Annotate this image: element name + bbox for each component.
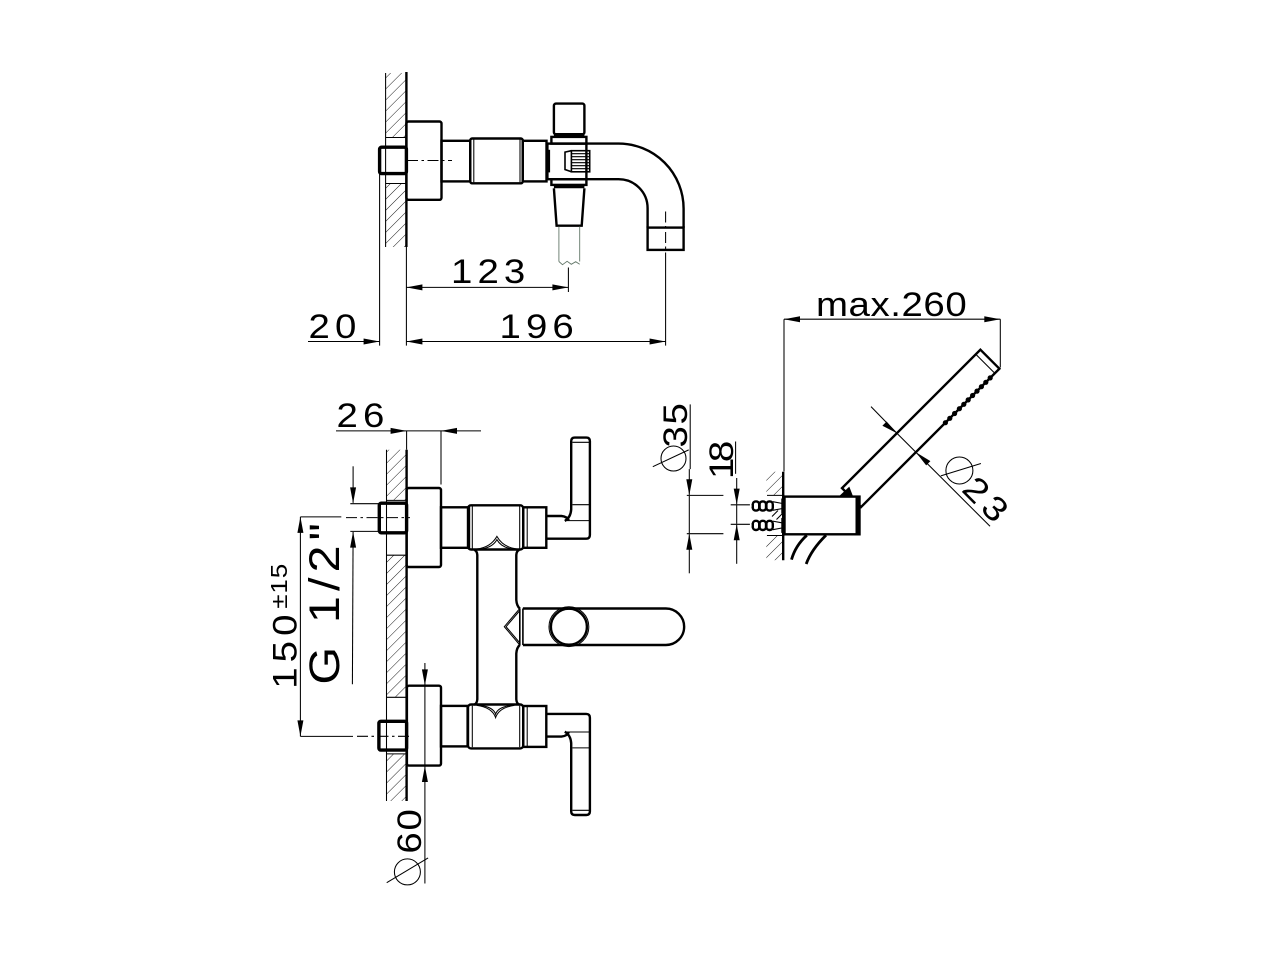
dim dia35 ticks xyxy=(687,494,724,496)
svg-text:196: 196 xyxy=(500,307,579,345)
bracket holder ring edge xyxy=(856,497,859,535)
cylinder C xyxy=(523,141,547,182)
diverter knob top xyxy=(554,104,585,135)
dim dia60 leader through flange xyxy=(424,663,426,685)
dim 18 leader line xyxy=(736,478,738,504)
lower inlet centerline xyxy=(300,735,353,737)
dowel 1 xyxy=(752,499,785,514)
dim 20 arrow xyxy=(364,339,380,345)
cylinder B body xyxy=(470,139,523,184)
dia23 symbol xyxy=(946,457,973,484)
lower transition curves xyxy=(477,705,515,717)
tee bottom thick band xyxy=(554,185,585,188)
wall hatch band segments xyxy=(766,472,783,496)
spout outer curve xyxy=(586,144,683,228)
dim 123 arrows xyxy=(406,284,422,290)
left extension line xyxy=(783,319,785,471)
wall face line xyxy=(405,72,407,247)
dim dia23 line upper segment xyxy=(871,407,897,434)
tee valve body xyxy=(547,144,586,180)
wall face extension up to dim 26 xyxy=(406,431,408,450)
lower valve chamfer lines xyxy=(471,706,473,748)
aerator tube thin outline xyxy=(559,227,580,262)
tub spout chevron joint xyxy=(504,609,520,646)
lower inlet nut xyxy=(379,721,407,750)
dim 150 line xyxy=(299,517,301,737)
wall face extension line to dimension xyxy=(405,247,407,346)
dim 20 tail line xyxy=(308,341,380,343)
svg-text:max.260: max.260 xyxy=(816,285,967,323)
wall hatch lower band xyxy=(386,184,407,248)
spray nozzle dots xyxy=(943,375,993,425)
upper transition curves xyxy=(477,536,517,549)
extra hatch marks between dowels xyxy=(772,511,783,520)
upper connector cylinder xyxy=(441,507,469,548)
bracket entry wedge xyxy=(839,487,853,497)
aerator break line xyxy=(559,261,580,264)
body tube xyxy=(474,550,477,705)
lower flange escutcheon xyxy=(407,686,441,766)
upper valve chamfer lines xyxy=(471,507,473,549)
knob collar xyxy=(551,137,586,144)
wall back boundary line xyxy=(385,73,387,247)
dia35 leader line xyxy=(688,469,690,495)
upper lever handle xyxy=(546,438,590,539)
svg-text:18: 18 xyxy=(702,442,740,479)
lower lever handle (mirror of upper) xyxy=(546,714,590,815)
wall hole1 edges xyxy=(387,499,407,501)
valve cone xyxy=(565,151,571,172)
dim 150 arrows xyxy=(297,517,303,533)
upper right block xyxy=(523,507,546,548)
svg-text:60: 60 xyxy=(390,807,428,853)
dia35 underline xyxy=(689,404,691,469)
right extension line xyxy=(999,319,1001,367)
knob bottom thick band xyxy=(554,134,585,137)
knurl lines xyxy=(571,154,589,169)
nut extension line for dim 20 xyxy=(379,174,381,346)
cylinder A xyxy=(442,141,471,182)
dim 26 extension line xyxy=(440,431,442,485)
wall flange escutcheon xyxy=(406,122,441,200)
lower valve body xyxy=(468,705,523,749)
dim 196 arrows xyxy=(406,339,422,345)
dia60 symbol slash xyxy=(387,858,428,883)
centerline of inlet xyxy=(407,160,452,162)
wall hole2 edges xyxy=(387,696,407,698)
hose arc 1 xyxy=(792,535,807,559)
spout end extension line xyxy=(665,258,667,346)
wall hole edge top xyxy=(386,137,407,139)
tub spout flange double line xyxy=(519,609,521,646)
diverter ring thin xyxy=(549,607,589,647)
svg-text:26: 26 xyxy=(337,396,390,434)
dia35 symbol xyxy=(661,446,686,471)
svg-text:35: 35 xyxy=(656,401,694,447)
hose arc 2 xyxy=(806,535,826,564)
dia23 lower segment xyxy=(916,452,990,526)
upper valve body xyxy=(468,505,523,549)
shower handle stick xyxy=(842,350,999,507)
wall hole edge bottom xyxy=(386,183,407,185)
wall hatch upper band xyxy=(386,73,407,138)
stick end inner line xyxy=(976,354,995,373)
svg-text:20: 20 xyxy=(309,307,362,345)
upper inlet centerline xyxy=(300,516,341,518)
dim 26 arrows xyxy=(391,428,407,434)
dim 123 line xyxy=(406,286,568,288)
aerator extension line xyxy=(567,268,569,293)
upper inlet nut xyxy=(379,503,406,533)
upper flange escutcheon xyxy=(407,488,441,567)
dia60 symbol circle xyxy=(394,859,420,885)
dim 196 line xyxy=(406,341,665,343)
union nut behind wall xyxy=(380,147,407,173)
tee bottom collar xyxy=(551,179,586,185)
knurled cartridge xyxy=(571,151,589,172)
diverter knob circle xyxy=(551,609,587,645)
spout end cap xyxy=(648,228,684,250)
tub spout body xyxy=(523,609,684,646)
wall face line xyxy=(405,450,407,801)
dim 26 line xyxy=(336,430,481,432)
dim max260 arrows xyxy=(784,316,800,322)
cylinder B chamfer lines xyxy=(473,140,475,183)
nozzle taper xyxy=(554,188,585,225)
svg-text:G 1/2": G 1/2" xyxy=(300,518,349,685)
dim 18 underline xyxy=(735,442,737,474)
dowel 2 xyxy=(752,518,785,533)
dim 18 ticks xyxy=(731,504,750,506)
spout end centerline xyxy=(665,212,667,259)
G 1/2 extension lines xyxy=(350,503,379,505)
svg-text:150: 150 xyxy=(266,609,304,688)
spout inner curve xyxy=(586,179,647,227)
svg-text:±15: ±15 xyxy=(268,563,293,609)
wall bracket body xyxy=(785,497,860,535)
wall hole edge lines xyxy=(767,494,785,496)
lower right block xyxy=(523,706,546,747)
valve interior opening left edge xyxy=(548,150,550,173)
wall back boundary line xyxy=(386,450,388,801)
dim max260 line xyxy=(784,318,1000,320)
wall hatch band segments xyxy=(387,450,407,501)
svg-text:123: 123 xyxy=(451,252,530,290)
wall face line xyxy=(782,472,784,561)
G 1/2 arrow lines xyxy=(352,466,354,503)
dia23 line through stick xyxy=(897,433,916,452)
lower connector cylinder xyxy=(441,706,468,747)
